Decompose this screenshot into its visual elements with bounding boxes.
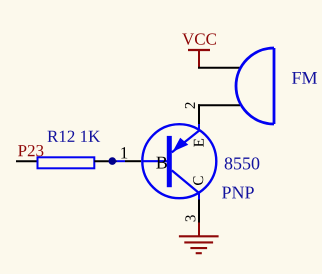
wire speaker bottom to emitter (horizontal): [198, 104, 240, 106]
ground bar 1: [179, 235, 219, 237]
VCC stem: [198, 49, 200, 68]
speaker LS (FM) flat side: [273, 48, 276, 124]
ground bar 2: [184, 241, 213, 243]
transistor Q 8550 circle: [142, 124, 216, 198]
pin name B: [156, 157, 167, 169]
base pin stub (blue): [117, 160, 126, 162]
speaker dome arc: [236, 48, 274, 124]
emitter arrow (PNP): [173, 138, 189, 152]
wire resistor to transistor base: [94, 160, 116, 162]
speaker label FM: [292, 72, 317, 84]
pin name C (rotated): [193, 176, 203, 185]
ground stem: [198, 223, 200, 237]
wire collector vertical: [198, 200, 200, 223]
power port VCC label: [182, 33, 216, 45]
resistor R12 body: [38, 157, 95, 168]
collector pin stub: [198, 193, 200, 200]
emitter pin stub: [198, 124, 200, 131]
part number 8550: [225, 157, 260, 169]
emitter line: [172, 131, 199, 153]
part type PNP: [222, 187, 254, 199]
junction dot: [109, 157, 117, 165]
wire P23 to resistor: [16, 160, 38, 162]
pin number 1: [121, 147, 127, 158]
pin number 2 (rotated): [185, 102, 195, 108]
resistor R12 value label: [47, 131, 100, 142]
wire emitter vertical: [198, 104, 200, 124]
ground bar 4: [196, 252, 202, 254]
VCC bar: [188, 49, 210, 51]
base bar: [167, 136, 172, 187]
wire VCC to speaker top: [198, 67, 241, 69]
wire into transistor: [125, 160, 141, 162]
pin name E (rotated): [194, 139, 204, 147]
net label P23: [18, 145, 43, 156]
pin number 3 (rotated): [185, 215, 195, 221]
base line inside circle: [142, 160, 168, 162]
ground bar 3: [190, 247, 207, 249]
collector line: [172, 170, 199, 193]
